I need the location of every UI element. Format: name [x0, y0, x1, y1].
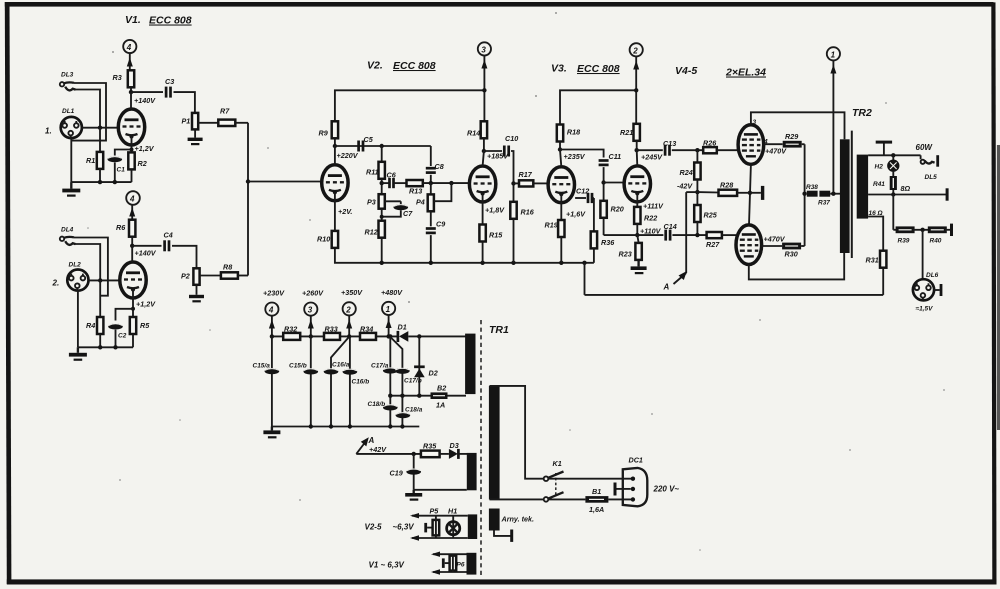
wire C4 to P2 — [172, 246, 197, 268]
wire C16b branch — [349, 336, 351, 426]
wire channel 1 ground bus — [71, 181, 131, 183]
wire C15b branch — [310, 336, 312, 426]
wire A vertical — [685, 192, 687, 273]
resistor R14 — [467, 121, 487, 138]
svg-text:+220V: +220V — [337, 151, 359, 160]
wire V1a plate to +140V — [130, 92, 132, 109]
wire R36 to bus end — [593, 248, 595, 262]
resistor R41 — [873, 171, 897, 190]
wire down to R39 — [892, 195, 894, 230]
svg-text:+350V: +350V — [341, 288, 363, 297]
svg-text:~6,3V: ~6,3V — [393, 523, 415, 532]
wire +140V node to C4 — [132, 245, 161, 247]
resistor R17 — [514, 170, 534, 187]
svg-text:V2.: V2. — [367, 60, 383, 72]
transformer TR2 core — [851, 131, 853, 258]
junction C5/R11 — [380, 144, 384, 148]
wire grid junction down to R4 — [99, 280, 101, 316]
wire R25 to +110V line — [696, 222, 698, 235]
lamp H2 — [875, 155, 899, 171]
wire DL4 tip down to grid ch2 — [74, 244, 100, 280]
wire B2 to TR1 bar — [448, 395, 467, 397]
resistor R6 (plate, channel 2) — [116, 220, 135, 237]
wire mixing vertical x248 — [247, 123, 249, 276]
wire mix node to V2a grid — [248, 181, 322, 183]
wire secondary top tap — [868, 154, 921, 156]
node 4 (channel 2 supply) — [126, 191, 140, 205]
transformer TR2 secondary winding — [857, 155, 868, 219]
ground under P2 — [189, 285, 204, 303]
wire 8 ohm tap — [868, 184, 947, 195]
transformer TR1 HV winding — [465, 334, 475, 395]
potentiometer P1 — [182, 113, 199, 129]
ground PSU — [263, 427, 280, 439]
wire -42V stub to A line — [686, 191, 697, 193]
junction cathode / C1 stub — [130, 148, 134, 152]
svg-text:P2: P2 — [181, 272, 190, 281]
junction DL6 tap — [920, 228, 924, 232]
wire primary bottom to K1 — [490, 498, 544, 500]
junction HT / centre tap — [831, 192, 835, 196]
wire V1b plate to +140V — [131, 246, 133, 262]
svg-text:C1: C1 — [117, 167, 126, 174]
svg-text:V3.: V3. — [551, 63, 567, 75]
svg-text:R16: R16 — [521, 208, 535, 217]
junction V3b grid — [601, 180, 605, 184]
transformer TR1 heater winding 2 — [467, 553, 477, 575]
svg-text:DL4: DL4 — [61, 227, 74, 234]
wire EL34-2 screen to R30 — [762, 235, 786, 247]
svg-text:P5: P5 — [430, 507, 440, 516]
switch K1 — [544, 459, 564, 502]
wire R5 to bus ch2 — [132, 334, 134, 347]
resistor R26 — [703, 139, 717, 154]
wire R14 to +185V node — [483, 138, 485, 151]
resistor R34 — [360, 325, 376, 340]
svg-text:DC1: DC1 — [629, 456, 643, 465]
svg-text:C18/b: C18/b — [368, 401, 386, 408]
svg-text:R28: R28 — [720, 181, 733, 190]
wire R9 to plate node — [334, 138, 336, 146]
svg-text:R14: R14 — [467, 129, 480, 138]
wire P3 to R12 — [381, 209, 383, 221]
capacitor C15/b — [289, 363, 318, 375]
wire feedback line to R31 — [585, 294, 884, 296]
svg-text:C5: C5 — [364, 135, 374, 144]
wire P3 wiper to C7 — [385, 200, 401, 202]
wire 16 ohm tap — [868, 210, 883, 251]
svg-text:V4-5: V4-5 — [675, 65, 697, 77]
resistor R4 — [86, 317, 103, 334]
svg-text:P6: P6 — [457, 562, 465, 569]
wire V1b cathode down — [132, 290, 134, 317]
resistor R21 — [620, 124, 640, 141]
svg-text:+470V: +470V — [764, 235, 786, 244]
svg-text:+1,2V: +1,2V — [135, 144, 155, 153]
node +110V — [635, 227, 662, 238]
wire HT rail — [272, 335, 398, 337]
transformer TR1 heater winding 1 — [468, 514, 477, 539]
wire R22 to +110V node — [636, 224, 638, 235]
svg-text:+1,8V: +1,8V — [485, 206, 505, 215]
resistor R10 — [317, 231, 338, 248]
wire DL3 tip down to grid — [74, 90, 100, 128]
svg-text:R12: R12 — [365, 228, 378, 237]
svg-text:C13: C13 — [663, 139, 676, 148]
svg-text:DL3: DL3 — [61, 72, 74, 79]
resistor R11 — [366, 162, 385, 179]
wire C17b diagonal branch — [390, 337, 402, 427]
svg-text:DL5: DL5 — [925, 174, 938, 181]
wire PSU bottom bus — [272, 426, 419, 428]
svg-text:R29: R29 — [785, 132, 798, 141]
svg-text:C18/a: C18/a — [405, 407, 423, 414]
junction mix node — [246, 179, 250, 183]
svg-text:R11: R11 — [366, 168, 379, 177]
title V2 ECC808 — [367, 60, 436, 73]
wire P2 wiper to R8 — [200, 275, 221, 277]
wire EL34-2 plate to TR2 bottom — [749, 253, 844, 279]
svg-text:60W: 60W — [916, 143, 934, 152]
triode V2b — [469, 166, 495, 202]
connector DL1 — [45, 108, 82, 138]
svg-text:R1: R1 — [86, 156, 95, 165]
wire common bus V2/V3 — [335, 248, 594, 263]
resistor R27 — [706, 232, 722, 249]
svg-text:C19: C19 — [390, 469, 403, 478]
svg-text:+140V: +140V — [135, 249, 157, 258]
svg-text:B2: B2 — [437, 384, 446, 393]
wire R2 to bus — [131, 169, 133, 182]
wire P4 wiper return up — [434, 183, 452, 201]
svg-text:R18: R18 — [567, 128, 580, 137]
svg-text:+42V: +42V — [369, 445, 387, 454]
wire V3a plate — [560, 150, 561, 167]
junction 8ohm / R39 — [891, 192, 895, 196]
resistor R23 — [619, 235, 642, 260]
fuse holder P5 — [424, 507, 439, 539]
svg-text:K1: K1 — [553, 459, 562, 468]
svg-text:+230V: +230V — [263, 289, 285, 298]
svg-text:8Ω: 8Ω — [901, 184, 911, 193]
node A pointer (output stage) — [663, 271, 687, 292]
wire +245V to C13 — [637, 149, 663, 151]
wire R31 to feedback line — [882, 268, 884, 295]
svg-text:3: 3 — [481, 45, 486, 54]
svg-text:R39: R39 — [898, 238, 910, 245]
wire R37 to TR2 centre tap — [830, 193, 840, 195]
wire node4 to R3 with arrow — [127, 53, 133, 72]
resistor R3 — [113, 70, 135, 87]
node +245V — [635, 148, 664, 162]
junction P4 top — [429, 181, 433, 185]
svg-text:C17/a: C17/a — [371, 363, 389, 370]
svg-text:C7: C7 — [403, 209, 413, 218]
svg-text:4: 4 — [126, 43, 132, 52]
svg-text:R4: R4 — [86, 321, 95, 330]
svg-text:R19: R19 — [545, 221, 558, 230]
resistor R2 — [128, 152, 146, 169]
fuse holder P6 — [442, 554, 465, 572]
svg-text:C3: C3 — [165, 77, 174, 86]
wire B2 line — [390, 395, 430, 397]
capacitor C17/b — [395, 368, 422, 385]
capacitor C3 — [165, 77, 174, 98]
triode V3b — [624, 166, 650, 202]
junction C19 — [412, 452, 416, 456]
svg-text:+110V: +110V — [640, 227, 662, 236]
svg-text:P3: P3 — [367, 198, 376, 207]
wire R27 to EL34-2 grid — [722, 234, 736, 236]
wire C7 return to P3 bottom — [382, 210, 401, 216]
wire R6 to +140V node ch2 — [131, 237, 133, 246]
junction node2 line — [634, 88, 638, 92]
svg-text:≈1,5V: ≈1,5V — [916, 306, 934, 313]
wire rail D1 to TR1 bar — [408, 335, 466, 337]
svg-text:R41: R41 — [873, 181, 885, 188]
svg-text:C6: C6 — [387, 171, 397, 180]
capacitor C10 — [504, 134, 518, 157]
label heater V2-5 — [365, 523, 415, 532]
svg-text:C10: C10 — [505, 134, 518, 143]
svg-text:B1: B1 — [592, 487, 601, 496]
resistor R25 — [694, 205, 717, 222]
potentiometer P4 — [416, 183, 434, 211]
wire EL34 cathodes link — [749, 165, 751, 225]
svg-text:V2-5: V2-5 — [365, 523, 382, 532]
svg-text:R40: R40 — [930, 238, 942, 245]
wire node1 psu to rail with arrow — [386, 315, 392, 336]
wire B1 to DC1 bottom pin — [608, 498, 631, 500]
junction P4 wiper return — [449, 181, 453, 185]
svg-text:R27: R27 — [706, 240, 720, 249]
node -42V — [677, 180, 700, 206]
svg-text:R36: R36 — [601, 238, 615, 247]
wire cathode stub to C2 — [116, 309, 134, 321]
wire +42V line — [356, 453, 421, 455]
wire R29 to screen rail — [802, 143, 805, 145]
wire signal line to V2b grid — [423, 182, 470, 184]
svg-text:3: 3 — [753, 119, 757, 126]
resistor R39 — [893, 226, 914, 244]
svg-text:R22: R22 — [644, 214, 657, 223]
wire grid to V3b — [604, 182, 625, 184]
potentiometer P2 — [181, 268, 200, 285]
capacitor C4 — [164, 231, 173, 252]
svg-text:ECC 808: ECC 808 — [577, 63, 620, 75]
wire V3b cathode — [637, 193, 664, 210]
wire V3a cathode — [561, 194, 586, 220]
capacitor C9 — [426, 220, 445, 233]
transformer TR1 primary winding — [489, 386, 500, 500]
wire R26 to EL34-1 grid — [717, 149, 739, 151]
wire node4 psu to rail with arrow — [269, 316, 275, 337]
junction D2 branch — [417, 334, 421, 338]
resistor R24 — [680, 150, 701, 179]
node 4 (PSU) — [263, 289, 285, 316]
junction screen rail / R38 — [802, 192, 806, 196]
wire V2b plate — [483, 151, 484, 166]
capacitor C14 — [664, 222, 677, 241]
svg-text:D2: D2 — [429, 369, 438, 378]
wire node2 psu to rail with arrow — [346, 316, 352, 337]
svg-text:R26: R26 — [703, 139, 717, 148]
capacitor C17/a — [371, 363, 398, 374]
node 2 — [630, 43, 643, 56]
wire channel 2 ground bus — [78, 346, 133, 348]
wire R7 to mix node — [235, 122, 248, 124]
diode D3 — [449, 441, 459, 459]
resistor R35 — [421, 442, 440, 458]
svg-text:+480V: +480V — [381, 288, 403, 297]
svg-text:+140V: +140V — [134, 96, 156, 105]
junction dots on bus ch1 — [98, 180, 117, 184]
wire P1 wiper to R7 — [198, 122, 218, 124]
connector DL5 — [921, 155, 940, 181]
capacitor C13 — [663, 139, 676, 156]
svg-text:2: 2 — [632, 46, 638, 55]
wire R41 to 8ohm line — [892, 190, 894, 195]
svg-text:H2: H2 — [875, 164, 884, 171]
wire DL2 pin to bus — [77, 291, 79, 348]
svg-text:C11: C11 — [609, 152, 622, 161]
capacitor C7 — [394, 201, 414, 218]
svg-text:3: 3 — [308, 306, 313, 315]
wire V2b cathode — [483, 194, 506, 225]
svg-text:R32: R32 — [284, 325, 297, 334]
wire DL1 to V1a grid — [82, 127, 119, 129]
svg-text:R30: R30 — [785, 250, 798, 259]
junction B2 line — [388, 394, 421, 398]
capacitor C16/a — [324, 362, 350, 375]
wire DL3 sleeve to DL1 ground — [71, 83, 106, 141]
wire R8 to mix node — [238, 275, 248, 277]
wire bias winding return — [414, 489, 467, 491]
svg-text:Arny. tek.: Arny. tek. — [501, 515, 535, 524]
junction cathode ch2 / C2 stub — [131, 307, 135, 311]
svg-text:4: 4 — [129, 195, 135, 204]
svg-text:C16/b: C16/b — [352, 379, 370, 386]
svg-text:ECC 808: ECC 808 — [393, 60, 436, 72]
ground channel 1 — [62, 182, 80, 197]
connector DL4 jack — [60, 237, 76, 245]
resistor R15 — [479, 225, 503, 242]
svg-text:C8: C8 — [435, 162, 444, 171]
svg-text:R7: R7 — [220, 107, 230, 116]
capacitor C15/a — [253, 363, 280, 375]
wire DL4 sleeve down — [74, 238, 108, 296]
svg-text:C14: C14 — [664, 222, 677, 231]
node 2 (PSU) — [341, 288, 363, 315]
junction cathode / R28 — [748, 191, 752, 195]
svg-text:R2: R2 — [138, 159, 147, 168]
diode D2 — [414, 336, 438, 395]
svg-text:V1.: V1. — [125, 14, 141, 26]
svg-text:R34: R34 — [360, 325, 373, 334]
svg-text:R5: R5 — [140, 321, 150, 330]
svg-text:ECC 808: ECC 808 — [149, 15, 192, 27]
resistor R33 — [324, 325, 340, 340]
connector DL2 — [52, 262, 89, 291]
node 3 (PSU) — [302, 289, 324, 316]
wire V3b plate — [636, 150, 639, 166]
svg-text:H1: H1 — [448, 507, 457, 516]
wire R16 to bus — [513, 219, 515, 263]
svg-text:1: 1 — [386, 305, 391, 314]
svg-text:R6: R6 — [116, 223, 126, 232]
svg-text:C15/a: C15/a — [253, 363, 271, 370]
resistor R29 — [783, 132, 802, 148]
terminal bar 8ohm — [946, 188, 949, 200]
wire C14 to R27 — [672, 234, 706, 236]
wire V2a cathode to R10 — [335, 192, 352, 231]
wire C8 drop — [430, 146, 432, 166]
svg-text:R25: R25 — [704, 211, 718, 220]
svg-text:R37: R37 — [818, 200, 830, 207]
triode V2a — [322, 165, 348, 201]
capacitor C11 — [599, 152, 622, 165]
node 1 (PSU) — [381, 288, 403, 315]
wire junction down to R11 — [381, 146, 383, 162]
wire C13 to R26 node — [672, 149, 703, 151]
wire EL34-1 screen to R29 — [764, 144, 787, 155]
resistor R5 — [130, 317, 150, 334]
lamp H1 — [447, 507, 460, 539]
wire +185V to C10 — [484, 150, 502, 152]
svg-text:4: 4 — [268, 306, 274, 315]
wire DL2 to V1b grid — [89, 279, 121, 281]
svg-text:R3: R3 — [113, 73, 122, 82]
mains connector DC1 — [623, 456, 648, 507]
resistor R28 — [697, 181, 737, 196]
wire C11 to V3b grid line — [603, 167, 605, 201]
transformer TR1 core dashed line — [480, 320, 482, 576]
svg-text:R15: R15 — [489, 231, 503, 240]
svg-text:2×EL.34: 2×EL.34 — [725, 67, 766, 79]
shield winding (Arny. tek.) — [489, 509, 534, 531]
capacitor C12 — [575, 187, 594, 204]
junction node3 line — [482, 88, 486, 92]
wire K1 to DC1 top pin — [549, 478, 631, 480]
junction dots on bus ch2 — [98, 345, 118, 349]
wire screen rail — [804, 144, 806, 246]
svg-text:16 Ω: 16 Ω — [869, 210, 883, 217]
wire C16a diagonal branch — [331, 338, 349, 427]
svg-text:2.: 2. — [52, 279, 60, 288]
svg-text:D3: D3 — [450, 441, 459, 450]
diode D1 — [398, 323, 409, 343]
wire C12 to R36 — [593, 198, 595, 231]
resistor R1 — [86, 152, 103, 169]
wire node3 psu to rail with arrow — [308, 316, 314, 337]
junction grid ch2 / R4 — [98, 278, 102, 282]
svg-text:R35: R35 — [423, 442, 437, 451]
connector DL6 — [913, 272, 942, 313]
svg-text:220 V~: 220 V~ — [653, 485, 680, 494]
wire P4 to C9 — [430, 211, 432, 226]
wire C2 to bus ch2 — [115, 330, 117, 348]
wire V1a cathode down — [131, 137, 133, 153]
cathode chassis bar — [750, 186, 764, 200]
node 4 (channel 1 supply) — [123, 40, 136, 53]
wire heater2 top — [431, 552, 467, 557]
junction R24 top — [695, 148, 699, 152]
wire R19 to bus — [560, 237, 562, 263]
svg-text:C4: C4 — [164, 231, 173, 240]
junction dots common bus — [380, 261, 587, 265]
resistor R18 — [557, 125, 580, 142]
resistor R12 — [365, 221, 385, 238]
